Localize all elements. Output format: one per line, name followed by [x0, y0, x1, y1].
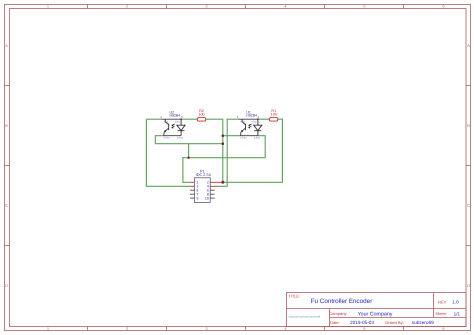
- wire left vertical down to P1 pin3: [146, 119, 190, 186]
- frame zone ticks bottom: [88, 327, 404, 331]
- svg-text:1: 1: [47, 4, 49, 9]
- svg-text:Company:: Company:: [329, 311, 347, 316]
- svg-text:Fu Controller Encoder: Fu Controller Encoder: [311, 298, 373, 305]
- resistor R1: [269, 109, 277, 121]
- svg-text:C4a: C4a: [175, 121, 180, 124]
- wire U2 pin4 to R2: [181, 118, 197, 120]
- resistor R2 body: [197, 118, 205, 122]
- wire U2 pin1 to left rail: [146, 118, 161, 120]
- svg-text:2 E1a: 2 E1a: [240, 136, 247, 139]
- U1 phototransistor and LED: [241, 119, 262, 136]
- svg-text:3: 3: [205, 326, 207, 331]
- frame zone letters right: [467, 43, 470, 288]
- frame zone letters left: [5, 43, 8, 288]
- wire branch down from U2 loop to P1 pin1: [183, 144, 190, 183]
- svg-text:100: 100: [271, 113, 277, 117]
- P1 right pin stubs: [210, 182, 223, 186]
- U2 light arrows: [172, 124, 175, 127]
- svg-text:Your Company: Your Company: [358, 311, 393, 317]
- frame zone ticks right: [466, 85, 471, 245]
- svg-text:2: 2: [126, 4, 128, 9]
- svg-text:subzero69: subzero69: [412, 320, 434, 325]
- svg-text:5: 5: [363, 4, 365, 9]
- svg-text:1.0: 1.0: [452, 300, 459, 305]
- svg-text:IDC 2.54: IDC 2.54: [196, 173, 211, 177]
- svg-text:3: 3: [205, 4, 207, 9]
- U1 light arrows: [249, 124, 252, 127]
- opto-interrupter U1: [237, 110, 262, 139]
- svg-text:2019-05-03: 2019-05-03: [350, 320, 374, 325]
- wire U1 pin1 down to P1 pin4: [218, 119, 238, 186]
- svg-text:REV: REV: [438, 300, 447, 305]
- resistor R2: [197, 109, 205, 121]
- svg-text:A: A: [467, 43, 470, 48]
- svg-text:C4a: C4a: [252, 121, 257, 124]
- svg-text:9: 9: [196, 197, 198, 201]
- svg-text:1: 1: [47, 326, 49, 331]
- svg-text:1/1: 1/1: [454, 311, 461, 316]
- junction at P1 pin1 branch: [187, 157, 189, 159]
- wire long horizontal to U1 diode cathode: [189, 136, 266, 158]
- P1 pin numbers: [196, 181, 198, 201]
- svg-text:C1a: C1a: [164, 121, 169, 124]
- svg-text:Date:: Date:: [330, 320, 340, 325]
- title block lines: [287, 293, 467, 327]
- junction at U1 pin4 / LED anode: [257, 118, 259, 120]
- opto-interrupter U2: [160, 110, 185, 139]
- frame zone ticks top: [88, 5, 404, 9]
- P1 body: [194, 178, 210, 203]
- junction at U2 pin4 / LED anode: [180, 118, 182, 120]
- svg-text:H92B4: H92B4: [170, 114, 181, 118]
- svg-text:C: C: [5, 203, 8, 208]
- frame zone ticks left: [5, 85, 10, 245]
- wire U1 emitter to center junction: [223, 135, 241, 137]
- junction at P1 pin2: [221, 181, 224, 184]
- svg-text:3 A1a: 3 A1a: [254, 136, 261, 139]
- svg-text:Drawn By:: Drawn By:: [385, 320, 403, 325]
- wire U2 emitter loop: [155, 136, 223, 144]
- svg-text:6: 6: [442, 4, 444, 9]
- junction at R2 net / U2 loop: [222, 142, 225, 145]
- frame zone numbers top: [47, 4, 445, 9]
- frame zone numbers bottom: [47, 326, 445, 331]
- svg-text:B: B: [467, 123, 470, 128]
- U2 emitter arrowhead: [164, 130, 167, 132]
- svg-text:100: 100: [198, 113, 204, 117]
- wire R2 right then down to P1 pin2 junction: [206, 119, 223, 182]
- svg-text:H92B4: H92B4: [246, 114, 257, 118]
- svg-text:easyeda.com/user/subzero69: easyeda.com/user/subzero69: [289, 316, 322, 319]
- resistor R1 body: [269, 118, 277, 122]
- U2 pin rails: [162, 119, 182, 136]
- svg-text:3 A1a: 3 A1a: [177, 136, 184, 139]
- svg-text:D: D: [5, 283, 8, 288]
- U1 pin rails: [238, 119, 258, 136]
- junction at U1 emitter wire: [222, 134, 225, 137]
- svg-text:10: 10: [205, 197, 209, 201]
- svg-text:TITLE:: TITLE:: [289, 294, 300, 298]
- svg-text:C: C: [467, 203, 470, 208]
- svg-text:Sheet:: Sheet:: [435, 311, 446, 316]
- svg-text:B: B: [5, 123, 8, 128]
- svg-text:C1a: C1a: [241, 121, 246, 124]
- svg-text:A: A: [5, 43, 8, 48]
- connector P1: [190, 170, 223, 203]
- U1 emitter arrowhead: [241, 130, 244, 132]
- svg-text:2: 2: [126, 326, 128, 331]
- wire R1 right down and back to P1 pin2 junction: [223, 119, 283, 182]
- svg-text:2 E1a: 2 E1a: [163, 136, 170, 139]
- wire U1 pin4 to R1: [258, 118, 270, 120]
- U2 phototransistor and LED: [164, 119, 185, 136]
- P1 left pin stubs: [190, 182, 194, 186]
- svg-text:D: D: [467, 283, 470, 288]
